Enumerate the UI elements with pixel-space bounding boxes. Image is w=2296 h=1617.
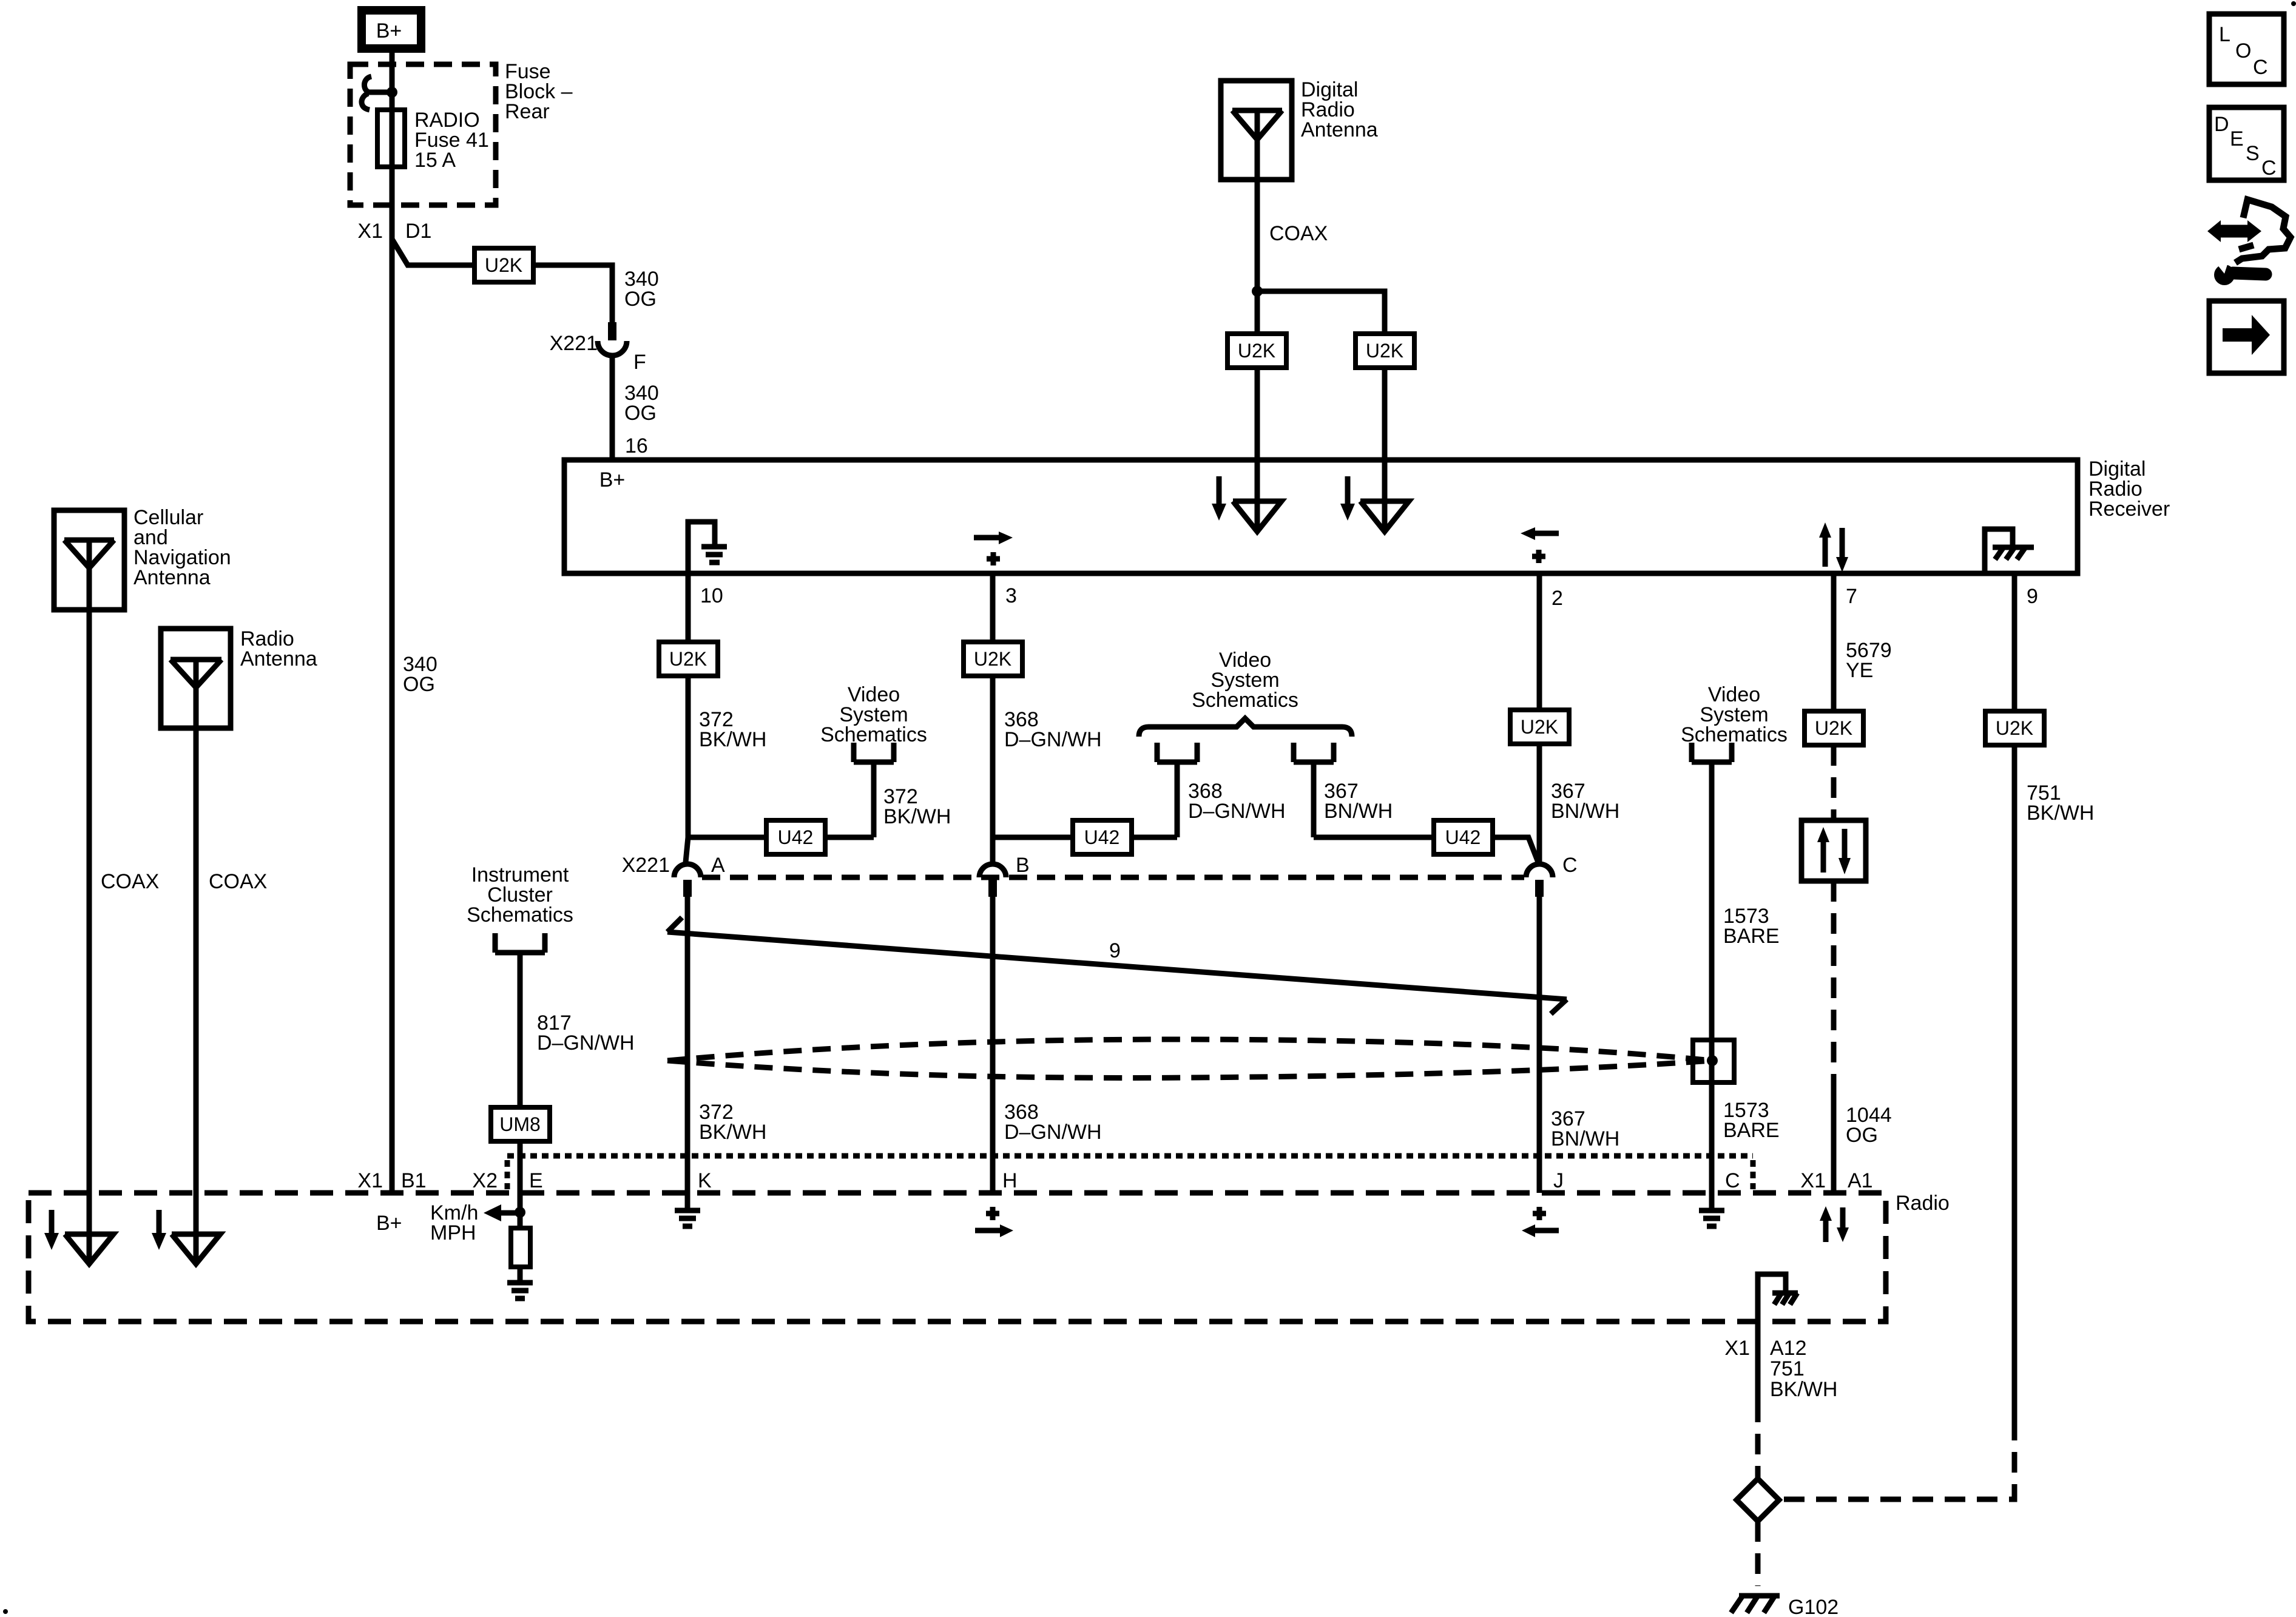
svg-text:OG: OG xyxy=(1846,1124,1878,1147)
svg-text:Antenna: Antenna xyxy=(133,566,211,589)
svg-text:S: S xyxy=(2246,142,2260,165)
U2K box (fuse branch) xyxy=(474,248,533,282)
antenna triangle (cellular) xyxy=(65,1234,113,1264)
U2K box (pin 3) xyxy=(964,642,1022,676)
wire pin 10 to A xyxy=(686,676,691,837)
sidebar icon arrow right box xyxy=(2209,301,2284,373)
svg-text:Schematics: Schematics xyxy=(1192,689,1298,712)
svg-text:BN/WH: BN/WH xyxy=(1551,1127,1619,1150)
wire pin 9 xyxy=(2012,573,2017,711)
svg-text:D–GN/WH: D–GN/WH xyxy=(1004,1121,1102,1144)
up-down arrows (pin A1) xyxy=(1820,1206,1849,1242)
Km/h MPH arrow xyxy=(430,1201,525,1244)
svg-text:16: 16 xyxy=(625,434,648,457)
wire A to K xyxy=(685,897,690,1210)
svg-text:U2K: U2K xyxy=(1996,717,2033,739)
svg-text:X2: X2 xyxy=(472,1169,498,1192)
svg-text:D1: D1 xyxy=(405,220,431,243)
sidebar icon DESC xyxy=(2209,107,2284,180)
svg-text:X221: X221 xyxy=(550,332,598,355)
svg-text:Schematics: Schematics xyxy=(820,723,927,746)
U2K box (antenna 1) xyxy=(1227,334,1286,368)
svg-text:2: 2 xyxy=(1551,587,1563,610)
sidebar icon hand with arrow xyxy=(2207,200,2291,263)
chassis ground inside radio (A12) xyxy=(1758,1274,1798,1322)
wire coax branch xyxy=(1257,291,1385,334)
U42 box (367) xyxy=(1434,820,1493,854)
receiver internal antenna arrow 1 xyxy=(1212,460,1281,532)
digital radio receiver box xyxy=(564,460,2078,573)
wire bracket 368 down xyxy=(1175,762,1180,837)
svg-text:Rear: Rear xyxy=(505,100,550,123)
splice dot xyxy=(1707,1055,1718,1066)
svg-text:U2K: U2K xyxy=(1815,717,1852,739)
svg-text:YE: YE xyxy=(1846,659,1873,682)
wire A12 below radio xyxy=(1755,1322,1761,1402)
wire 1573 BARE down to C pin xyxy=(1709,762,1715,1210)
wire F to receiver pin 16 xyxy=(610,356,615,460)
junction dot coax split xyxy=(1252,286,1263,297)
svg-text:Schematics: Schematics xyxy=(467,903,573,927)
plus and arrow (pin J) xyxy=(1522,1207,1559,1237)
sidebar icon LOC xyxy=(2209,14,2284,84)
connector X221 B xyxy=(979,864,1006,897)
receiver internal ground (pin 10) xyxy=(688,522,727,571)
svg-text:9: 9 xyxy=(2027,585,2038,608)
down arrow (radio) xyxy=(152,1210,166,1250)
svg-text:U42: U42 xyxy=(1084,826,1120,848)
svg-text:BK/WH: BK/WH xyxy=(1770,1378,1837,1401)
svg-text:BK/WH: BK/WH xyxy=(883,805,951,828)
connector X221 F xyxy=(598,322,627,356)
wire horizontal 368 to B xyxy=(993,835,1177,840)
receiver internal chassis ground (pin 9) xyxy=(1985,529,2034,571)
connector X221 A xyxy=(674,837,701,897)
splice box xyxy=(1693,1040,1734,1082)
wire bracket down xyxy=(871,762,877,837)
svg-text:BK/WH: BK/WH xyxy=(699,728,766,751)
svg-text:E: E xyxy=(529,1169,543,1192)
svg-text:BARE: BARE xyxy=(1723,1119,1780,1142)
U2K box (pin 2) xyxy=(1510,710,1569,744)
splice diamond xyxy=(1737,1479,1779,1521)
off-page bracket (817) xyxy=(495,933,545,953)
svg-text:U2K: U2K xyxy=(485,254,522,276)
ground (pin C) xyxy=(1699,1210,1724,1226)
svg-text:C: C xyxy=(1725,1169,1740,1192)
svg-text:X1: X1 xyxy=(357,1169,383,1192)
wire bracket 367 down xyxy=(1311,762,1317,837)
fuse clip symbol xyxy=(362,76,371,110)
U2K box (pin 10) xyxy=(659,642,718,676)
svg-text:D–GN/WH: D–GN/WH xyxy=(537,1031,635,1055)
wire pin 10 xyxy=(686,573,691,642)
svg-text:COAX: COAX xyxy=(209,870,267,893)
wire horizontal 367 to C xyxy=(1314,837,1538,862)
svg-text:C: C xyxy=(2261,157,2277,180)
wire pin 7 solid to A1 xyxy=(1831,1092,1837,1193)
sidebar icon wrench xyxy=(2212,258,2266,285)
receiver internal up-down arrows (pin 7) xyxy=(1819,522,1848,572)
fuse RADIO Fuse 41 15A xyxy=(377,110,405,167)
diagonal wire 9 xyxy=(667,917,1567,1014)
svg-text:E: E xyxy=(2230,127,2244,150)
svg-text:OG: OG xyxy=(624,402,657,425)
svg-text:X1: X1 xyxy=(1724,1337,1750,1360)
cellular and navigation antenna xyxy=(54,510,124,610)
svg-text:U42: U42 xyxy=(778,826,814,848)
svg-text:B+: B+ xyxy=(376,19,402,42)
svg-text:BK/WH: BK/WH xyxy=(699,1121,766,1144)
svg-text:X221: X221 xyxy=(622,854,670,877)
off-page bracket (372) xyxy=(854,743,894,762)
U2K box (pin 7) xyxy=(1805,711,1863,745)
wire pin 2 to C xyxy=(1537,744,1542,864)
svg-text:O: O xyxy=(2235,39,2251,62)
wire pin 3 xyxy=(990,573,996,642)
svg-text:U2K: U2K xyxy=(1521,716,1558,738)
svg-text:751: 751 xyxy=(1770,1357,1805,1380)
U42 box (368) xyxy=(1073,820,1132,854)
svg-text:X1: X1 xyxy=(1800,1169,1826,1192)
off-page bracket (367) xyxy=(1294,743,1334,762)
svg-text:U2K: U2K xyxy=(1366,340,1403,362)
dashed wire diamond to ground xyxy=(1755,1521,1761,1586)
svg-text:BK/WH: BK/WH xyxy=(2027,802,2094,825)
connector X2 dotted line xyxy=(507,1156,1753,1189)
wire cellular coax xyxy=(87,610,92,1234)
wire branch to U2K xyxy=(392,239,474,265)
wire UM8 to E xyxy=(518,1141,523,1212)
brace xyxy=(1139,718,1352,737)
wire antenna 2 to receiver xyxy=(1382,368,1388,460)
wire horizontal to U42 xyxy=(688,835,874,840)
receiver internal antenna arrow 2 xyxy=(1340,460,1409,532)
svg-text:A: A xyxy=(711,854,725,877)
receiver internal arrow out (pin 3) xyxy=(974,532,1013,565)
svg-text:D: D xyxy=(2214,113,2229,136)
svg-text:MPH: MPH xyxy=(430,1221,476,1244)
svg-text:OG: OG xyxy=(624,288,657,311)
svg-text:D–GN/WH: D–GN/WH xyxy=(1004,728,1102,751)
wire pin 2 xyxy=(1537,573,1542,710)
svg-text:G102: G102 xyxy=(1788,1596,1838,1617)
svg-text:BARE: BARE xyxy=(1723,925,1780,948)
svg-text:F: F xyxy=(633,351,646,374)
svg-text:COAX: COAX xyxy=(101,870,159,893)
svg-text:B+: B+ xyxy=(599,468,626,491)
wire B to H xyxy=(990,897,996,1193)
antenna triangle (radio) xyxy=(172,1234,220,1264)
svg-text:C: C xyxy=(2253,56,2268,79)
svg-text:H: H xyxy=(1002,1169,1018,1192)
svg-text:U2K: U2K xyxy=(669,648,707,670)
receiver internal arrow in (pin 2) xyxy=(1521,527,1559,563)
twisted pair dashed ellipse xyxy=(667,1039,1712,1078)
U42 box (372) xyxy=(766,820,825,854)
junction dot xyxy=(387,87,397,98)
off-page bracket (368) xyxy=(1157,743,1197,762)
svg-text:Radio: Radio xyxy=(1896,1192,1950,1215)
U2K box (pin 9) xyxy=(1985,711,2044,745)
svg-text:15 A: 15 A xyxy=(414,149,456,172)
down arrow (cellular) xyxy=(44,1210,59,1250)
svg-text:OG: OG xyxy=(403,673,435,696)
svg-text:7: 7 xyxy=(1846,585,1857,608)
ground (E resistor) xyxy=(507,1283,533,1298)
svg-text:C: C xyxy=(1562,854,1578,877)
serial data box up-down arrows xyxy=(1801,820,1866,881)
battery terminal B+ xyxy=(362,10,421,49)
X221 connector dashed line xyxy=(702,875,1524,880)
svg-text:A1: A1 xyxy=(1848,1169,1873,1192)
dashed wire A12 to splice xyxy=(1755,1402,1761,1479)
wire 817 down xyxy=(518,953,523,1107)
wire radio antenna coax xyxy=(194,728,199,1234)
resistor xyxy=(511,1212,530,1281)
svg-text:10: 10 xyxy=(700,584,723,607)
wire pin 7 dashed xyxy=(1831,745,1837,820)
wire pin 3 to B xyxy=(990,676,996,864)
svg-text:3: 3 xyxy=(1005,584,1017,607)
corner mark top right xyxy=(2291,1,2296,6)
wire pin 7 xyxy=(1831,573,1837,711)
svg-text:U42: U42 xyxy=(1445,826,1481,848)
radio antenna xyxy=(161,629,231,728)
fuse block rear dashed box xyxy=(350,64,496,205)
svg-text:K: K xyxy=(698,1169,712,1192)
UM8 box xyxy=(491,1107,550,1141)
wire clip tap xyxy=(368,90,392,95)
wire C to J xyxy=(1537,897,1542,1193)
chassis ground G102 xyxy=(1731,1596,1780,1613)
radio dashed box xyxy=(29,1193,1886,1322)
svg-text:Antenna: Antenna xyxy=(240,647,317,670)
svg-text:UM8: UM8 xyxy=(499,1113,541,1135)
svg-text:D–GN/WH: D–GN/WH xyxy=(1188,800,1286,823)
connector X221 C xyxy=(1526,864,1553,897)
corner mark xyxy=(3,1609,8,1614)
svg-text:B+: B+ xyxy=(376,1212,402,1235)
wire pin 7 dashed lower xyxy=(1831,881,1837,1092)
digital radio antenna xyxy=(1221,81,1292,180)
svg-text:L: L xyxy=(2219,23,2230,46)
svg-text:U2K: U2K xyxy=(1238,340,1275,362)
wire digital antenna coax xyxy=(1255,180,1260,334)
plus and arrow (pin H) xyxy=(975,1207,1013,1237)
svg-text:BN/WH: BN/WH xyxy=(1551,800,1619,823)
U2K box (antenna 2) xyxy=(1356,334,1414,368)
svg-text:Receiver: Receiver xyxy=(2088,498,2170,521)
wire B+ vertical from terminal to Radio box xyxy=(390,53,395,1193)
svg-text:Antenna: Antenna xyxy=(1301,118,1378,141)
off-page bracket (1573) xyxy=(1692,743,1732,762)
svg-text:X1: X1 xyxy=(357,220,383,243)
wire antenna 1 to receiver xyxy=(1255,368,1260,460)
svg-text:COAX: COAX xyxy=(1269,222,1328,245)
svg-text:BN/WH: BN/WH xyxy=(1324,800,1393,823)
dashed wire pin 9 to diamond xyxy=(1779,1420,2014,1499)
svg-text:B: B xyxy=(1016,854,1030,877)
svg-text:U2K: U2K xyxy=(974,648,1011,670)
ground (pin K) xyxy=(675,1210,700,1226)
svg-text:B1: B1 xyxy=(401,1169,427,1192)
wire U2K to corner down xyxy=(533,265,612,323)
svg-text:9: 9 xyxy=(1109,939,1121,962)
wire pin 9 down xyxy=(2012,745,2017,1420)
svg-text:J: J xyxy=(1553,1169,1564,1192)
svg-text:A12: A12 xyxy=(1770,1337,1807,1360)
